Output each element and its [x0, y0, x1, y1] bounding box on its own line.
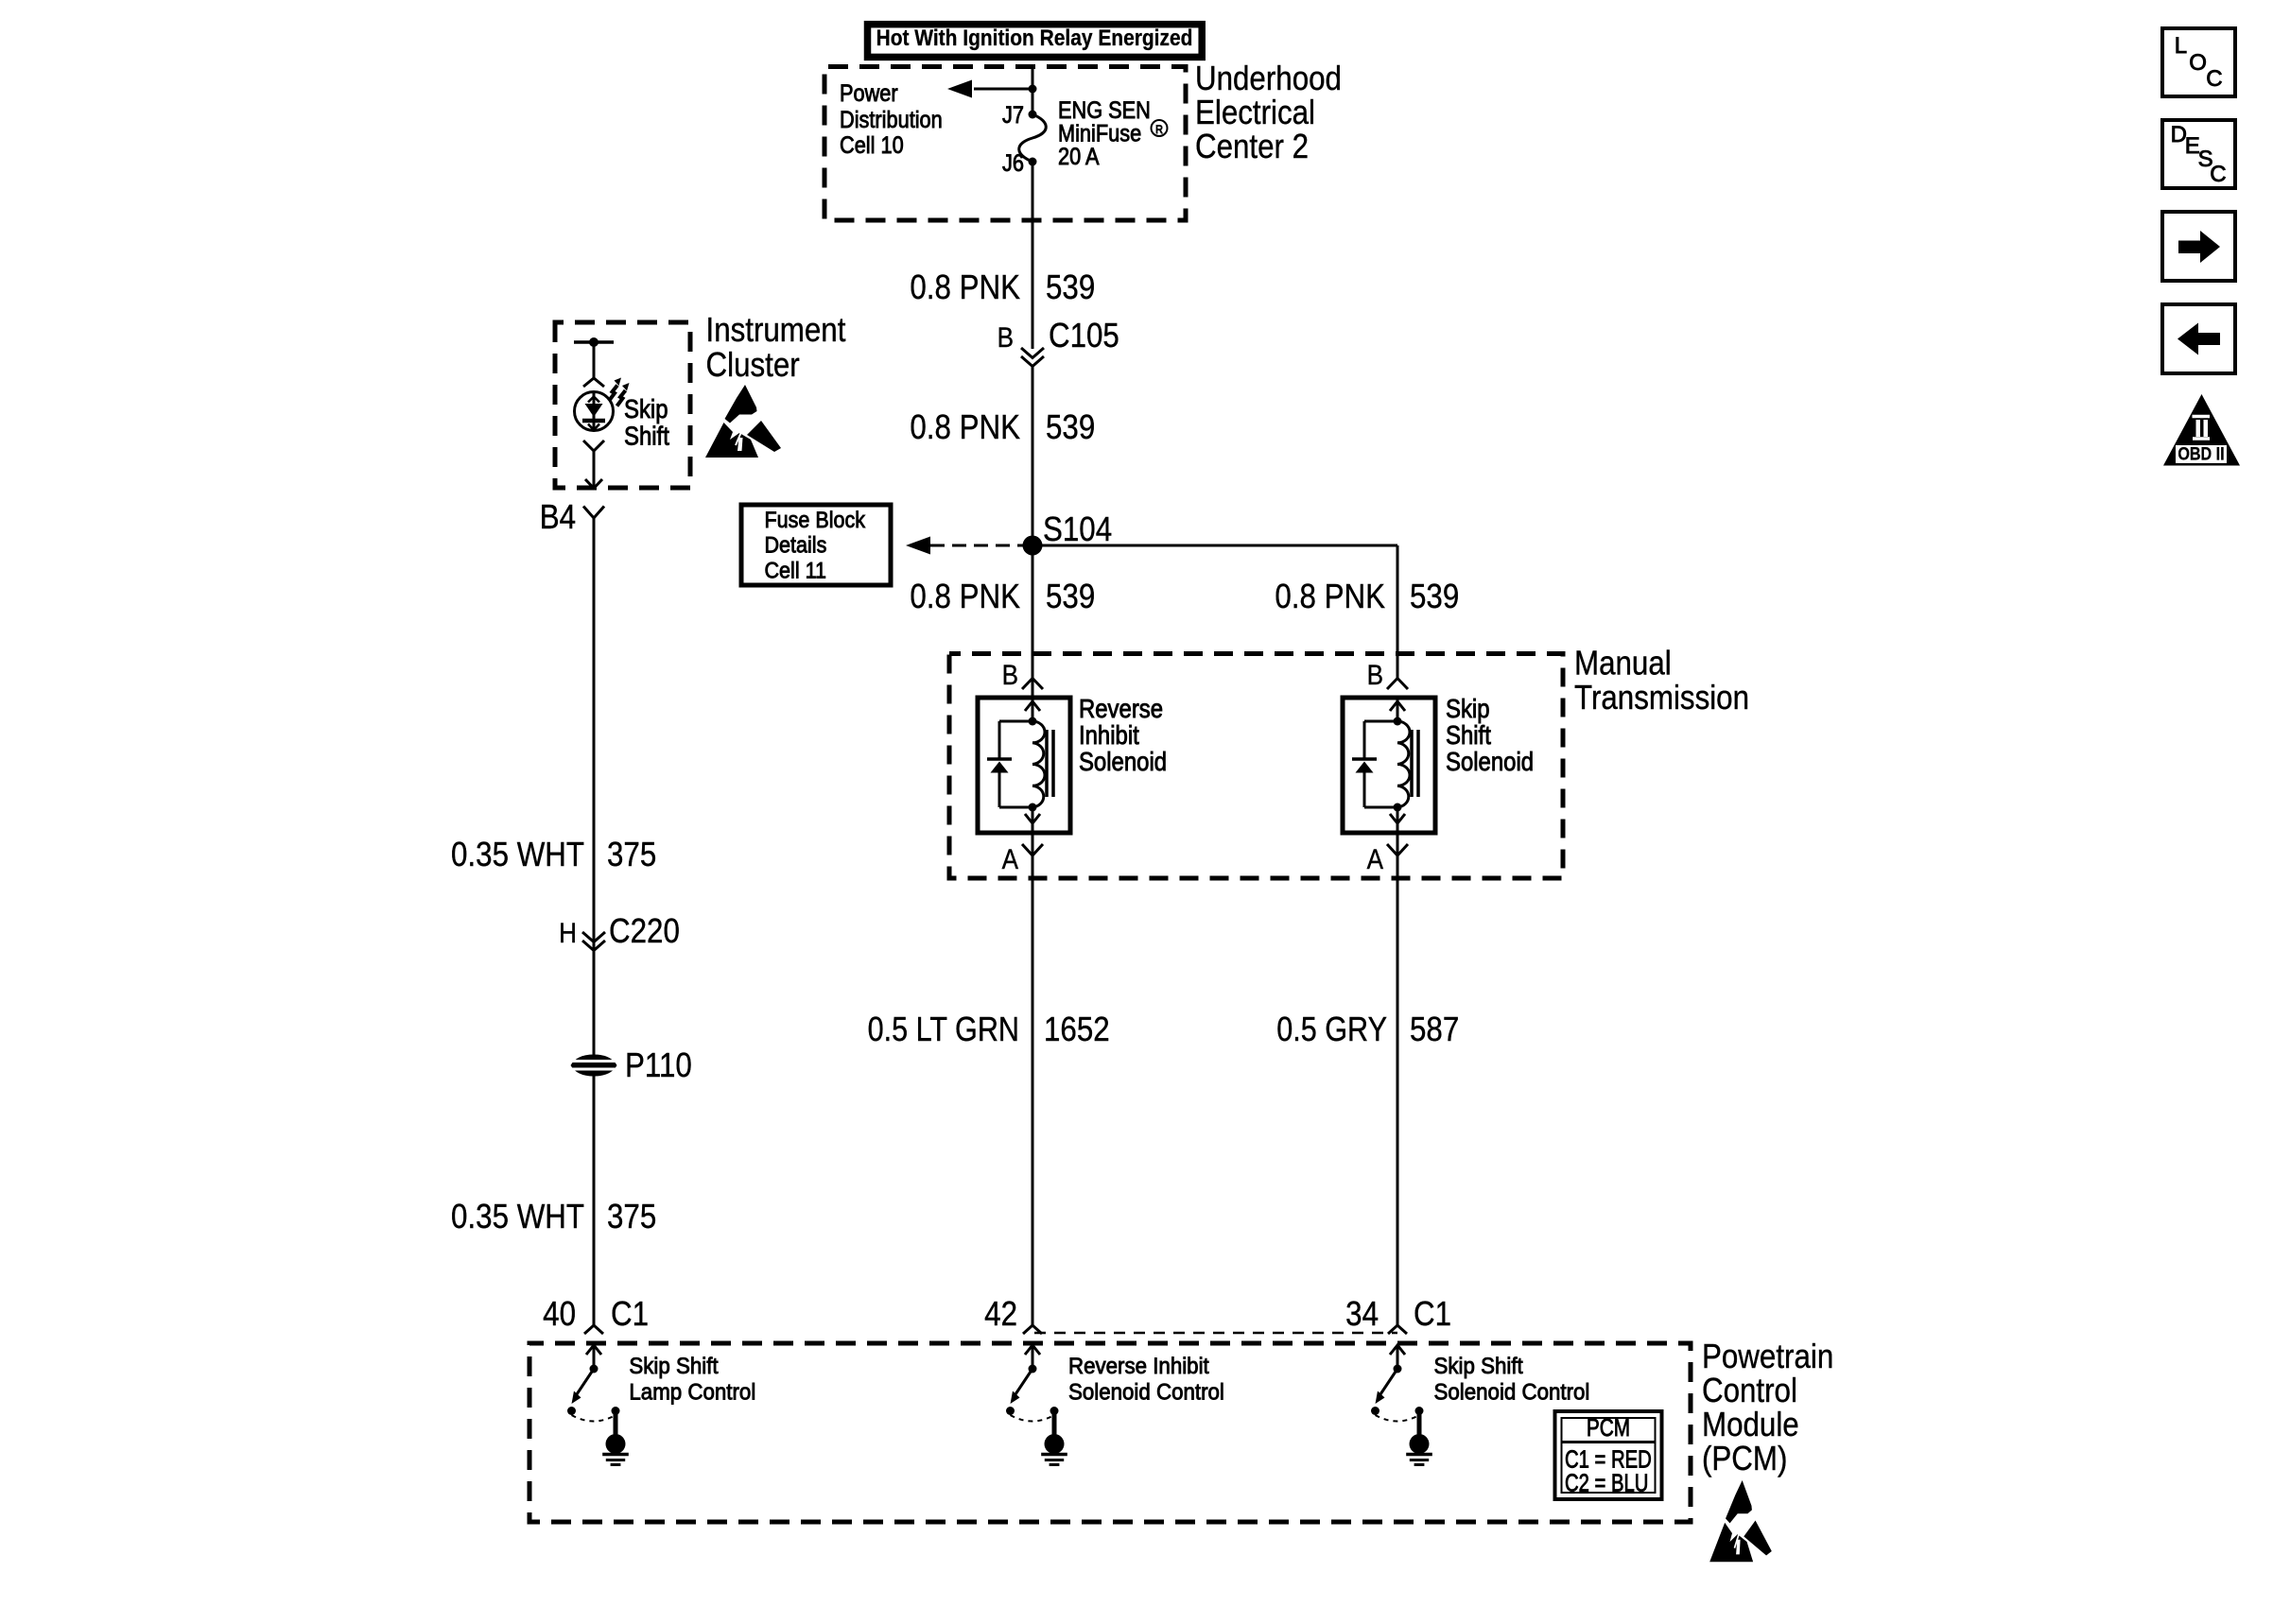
powertrain control module dashed box: [529, 1343, 1691, 1522]
svg-text:A: A: [1367, 843, 1384, 874]
svg-text:Fuse Block: Fuse Block: [765, 507, 866, 533]
svg-text:C: C: [2206, 66, 2222, 92]
svg-text:Skip Shift: Skip Shift: [629, 1353, 719, 1378]
svg-text:J7: J7: [1002, 102, 1024, 129]
connector C1 dashed link: [1034, 1332, 1397, 1335]
svg-text:Transmission: Transmission: [1574, 679, 1749, 717]
svg-text:J6: J6: [1002, 150, 1024, 177]
svg-text:Hot With Ignition Relay Energi: Hot With Ignition Relay Energized: [876, 24, 1193, 50]
svg-text:Reverse Inhibit: Reverse Inhibit: [1068, 1353, 1209, 1378]
svg-text:Inhibit: Inhibit: [1079, 722, 1139, 751]
svg-text:S104: S104: [1043, 510, 1112, 549]
wire bus to lamp: [593, 342, 596, 378]
icon DESC box: [2162, 120, 2235, 188]
svg-text:Instrument: Instrument: [706, 311, 847, 350]
svg-text:Cell 11: Cell 11: [765, 557, 826, 583]
svg-text:539: 539: [1410, 578, 1459, 616]
node S104 splice: [1023, 536, 1043, 556]
arrow to power distribution: [974, 88, 1032, 91]
wire ignition feed into UEC: [1032, 64, 1034, 114]
svg-text:0.8 PNK: 0.8 PNK: [910, 578, 1020, 616]
esd symbol instrument cluster: [705, 385, 781, 458]
wire lamp to cluster edge: [593, 451, 596, 488]
svg-text:C: C: [2210, 162, 2226, 187]
icon OBD II triangle: [2163, 394, 2240, 466]
svg-text:587: 587: [1410, 1011, 1459, 1049]
svg-text:Reverse: Reverse: [1079, 696, 1163, 724]
svg-text:375: 375: [607, 1198, 656, 1236]
svg-text:Lamp Control: Lamp Control: [629, 1379, 755, 1405]
underhood electrical center 2 dashed box: [824, 67, 1186, 221]
svg-text:C1: C1: [1414, 1295, 1451, 1334]
svg-text:Underhood: Underhood: [1195, 60, 1342, 98]
svg-text:34: 34: [1345, 1295, 1379, 1334]
pin J7: [1029, 111, 1037, 119]
wire S104 to reverse inhibit solenoid: [1032, 545, 1034, 698]
wire C105 to S104: [1032, 366, 1034, 545]
grommet P110: [571, 1055, 617, 1077]
svg-text:Details: Details: [765, 531, 827, 558]
svg-text:PCM: PCM: [1587, 1414, 1630, 1442]
svg-text:A: A: [1002, 843, 1019, 874]
fuse block details callout box: [741, 505, 891, 585]
svg-text:0.8 PNK: 0.8 PNK: [910, 408, 1020, 447]
svg-text:375: 375: [607, 836, 656, 874]
cluster internal bus bar: [574, 340, 614, 344]
svg-text:B4: B4: [540, 498, 576, 537]
svg-text:0.35 WHT: 0.35 WHT: [451, 1198, 584, 1236]
node feed junction: [1029, 85, 1037, 94]
PCM connector legend box: [1555, 1411, 1662, 1499]
svg-text:20 A: 20 A: [1058, 144, 1100, 170]
svg-text:Manual: Manual: [1574, 644, 1672, 682]
svg-text:Distribution: Distribution: [840, 107, 943, 133]
svg-text:Center 2: Center 2: [1195, 128, 1309, 166]
svg-text:Solenoid Control: Solenoid Control: [1068, 1379, 1224, 1405]
svg-text:OBD II: OBD II: [2178, 443, 2224, 464]
switch reverse inhibit solenoid control driver: [1025, 1345, 1040, 1355]
connector chevron into lamp: [583, 378, 604, 387]
svg-text:40: 40: [543, 1295, 576, 1334]
wire S104 branch to skip shift solenoid: [1032, 544, 1397, 547]
header box Hot With Ignition Relay Energized: [868, 25, 1203, 58]
svg-text:L: L: [2175, 33, 2187, 59]
svg-text:Shift: Shift: [624, 423, 669, 451]
svg-text:539: 539: [1046, 578, 1095, 616]
esd symbol PCM: [1709, 1480, 1772, 1562]
svg-text:0.5 GRY: 0.5 GRY: [1276, 1011, 1387, 1049]
instrument cluster dashed box: [555, 322, 690, 488]
LED emission arrows: [609, 386, 617, 402]
switch skip shift solenoid control driver: [1390, 1345, 1405, 1355]
svg-text:B: B: [1367, 659, 1383, 690]
fuse F1 ENG SEN MiniFuse 20A: [1019, 114, 1047, 162]
svg-text:(PCM): (PCM): [1702, 1440, 1787, 1478]
svg-text:539: 539: [1046, 408, 1095, 447]
svg-text:Module: Module: [1702, 1406, 1799, 1444]
cluster exit arrow: [585, 479, 602, 489]
svg-text:Power: Power: [840, 80, 898, 107]
svg-text:C220: C220: [609, 912, 680, 951]
svg-text:Shift: Shift: [1446, 722, 1491, 751]
icon arrow right box: [2162, 212, 2235, 281]
svg-text:H: H: [559, 917, 577, 948]
svg-text:0.35 WHT: 0.35 WHT: [451, 836, 584, 874]
svg-text:C2 = BLU: C2 = BLU: [1565, 1469, 1648, 1496]
svg-text:C105: C105: [1049, 317, 1119, 355]
icon LOC box: [2162, 28, 2235, 96]
connector B4: [583, 507, 604, 519]
svg-text:0.5 LT GRN: 0.5 LT GRN: [868, 1011, 1019, 1049]
svg-text:R: R: [1155, 125, 1163, 137]
svg-text:Cell 10: Cell 10: [840, 132, 904, 159]
wire B4 to PCM pin 40: [593, 518, 596, 1325]
svg-text:539: 539: [1046, 268, 1095, 307]
wire fuse output: [1032, 162, 1034, 349]
pin J6: [1029, 158, 1037, 166]
svg-text:P110: P110: [625, 1046, 692, 1085]
svg-text:Skip: Skip: [624, 396, 668, 424]
svg-text:1652: 1652: [1044, 1011, 1110, 1049]
indicator lamp Skip Shift LED: [575, 392, 614, 431]
svg-text:Cluster: Cluster: [706, 346, 800, 385]
svg-text:0.8 PNK: 0.8 PNK: [910, 268, 1020, 307]
svg-text:Powetrain: Powetrain: [1702, 1338, 1833, 1376]
svg-text:Electrical: Electrical: [1195, 94, 1315, 132]
dashed arrow to fuse block details: [930, 544, 1026, 547]
wire skip shift solenoid to PCM pin 34: [1397, 833, 1399, 1325]
switch skip shift lamp control driver: [586, 1345, 601, 1355]
icon arrow left box: [2162, 304, 2235, 373]
svg-text:C1: C1: [611, 1295, 649, 1334]
manual transmission dashed box: [949, 654, 1563, 879]
svg-text:42: 42: [984, 1295, 1017, 1334]
cluster lamp output chevron: [583, 441, 604, 451]
svg-text:B: B: [998, 321, 1014, 353]
svg-text:B: B: [1002, 659, 1018, 690]
svg-text:Skip Shift: Skip Shift: [1434, 1353, 1524, 1378]
svg-text:0.8 PNK: 0.8 PNK: [1275, 578, 1385, 616]
wire reverse inhibit solenoid to PCM pin 42: [1032, 833, 1034, 1325]
svg-text:Solenoid: Solenoid: [1446, 749, 1534, 777]
svg-text:Skip: Skip: [1446, 696, 1490, 724]
svg-text:Solenoid: Solenoid: [1079, 749, 1167, 777]
svg-text:Solenoid Control: Solenoid Control: [1434, 1379, 1590, 1405]
svg-text:O: O: [2189, 50, 2207, 76]
svg-text:Control: Control: [1702, 1372, 1797, 1410]
